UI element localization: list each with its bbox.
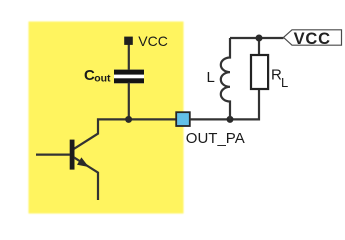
value label C_out bbox=[84, 67, 111, 84]
wire: Cout bottom to node bbox=[128, 83, 130, 120]
wire: resistor top lead bbox=[258, 38, 260, 55]
inductor L bbox=[221, 38, 230, 119]
node junction at Cout/collector bbox=[125, 116, 132, 123]
svg-text:L: L bbox=[281, 75, 288, 90]
node junction at resistor top bbox=[256, 35, 263, 42]
net flag VCC (right) bbox=[284, 30, 342, 48]
wire: collector bend to OUT_PA pin bbox=[74, 119, 177, 148]
node junction at inductor bottom bbox=[227, 116, 234, 123]
value label R_L bbox=[271, 66, 288, 90]
resistor R_L bbox=[251, 55, 268, 89]
svg-text:OUT_PA: OUT_PA bbox=[186, 130, 245, 147]
svg-text:VCC: VCC bbox=[294, 30, 331, 48]
capacitor C_out bbox=[114, 70, 144, 84]
svg-text:L: L bbox=[207, 69, 215, 86]
pin OUT_PA (port square) bbox=[176, 112, 190, 126]
transistor Q1 (NPN) bbox=[36, 140, 98, 200]
svg-text:out: out bbox=[94, 72, 111, 84]
wire: top rail to VCC flag bbox=[230, 37, 284, 39]
svg-text:VCC: VCC bbox=[138, 33, 168, 49]
highlight region (yellow) bbox=[29, 22, 184, 214]
wire: VCC stem to Cout top bbox=[128, 44, 130, 71]
power symbol VCC (bar) bbox=[124, 37, 133, 45]
wire: OUT_PA to resistor bottom bbox=[190, 90, 260, 119]
